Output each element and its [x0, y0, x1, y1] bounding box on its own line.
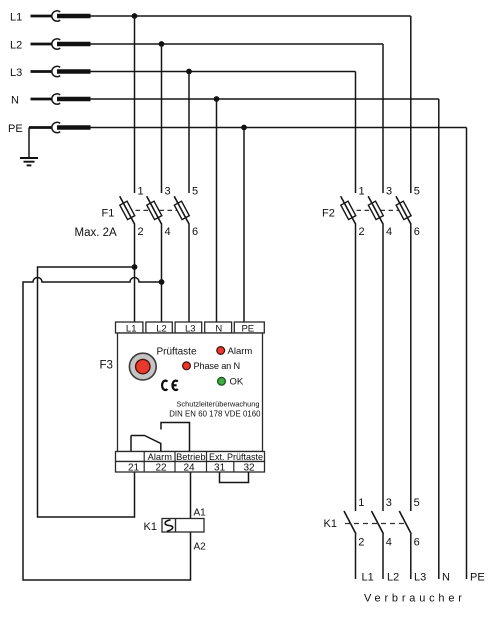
wire L1 to F1 pole 1	[134, 16, 136, 193]
svg-text:L2: L2	[387, 572, 399, 584]
svg-text:Alarm: Alarm	[228, 346, 253, 357]
svg-text:Ext. Prüftaste: Ext. Prüftaste	[209, 452, 263, 462]
fuse F2 pole 5-6	[396, 196, 411, 224]
junction N	[214, 96, 220, 102]
svg-text:F2: F2	[322, 208, 335, 220]
svg-text:2: 2	[359, 226, 365, 238]
svg-text:L1: L1	[362, 572, 374, 584]
wire N busbar	[91, 98, 439, 100]
fuse F1 pole 5-6	[174, 196, 189, 224]
ground	[20, 158, 38, 165]
svg-text:L1: L1	[10, 12, 22, 24]
svg-text:24: 24	[183, 463, 195, 474]
svg-text:4: 4	[386, 226, 392, 238]
junction L2	[159, 41, 165, 47]
svg-text:3: 3	[165, 186, 171, 198]
wire F2.2 down	[355, 225, 357, 512]
fuse F1 pole 3-4	[147, 196, 162, 224]
svg-text:F3: F3	[100, 360, 113, 372]
fuse F2 pole 1-2	[341, 196, 356, 224]
K1 contact pole 1-2	[344, 511, 356, 534]
wire L3 drop to F2	[355, 72, 357, 194]
supply connector L3	[31, 66, 91, 76]
wire L2 busbar	[91, 43, 384, 45]
fuse group F1 dashed link	[128, 209, 183, 211]
supply connector N	[31, 94, 91, 104]
wire F1.6 to F3 terminal L3	[188, 225, 190, 323]
wire PE drop right	[466, 128, 468, 580]
svg-text:22: 22	[155, 463, 167, 474]
junction L3	[186, 69, 192, 75]
wire terminal 24 to K1 A1	[190, 472, 192, 519]
svg-text:DIN EN 60 178 VDE 0160: DIN EN 60 178 VDE 0160	[169, 409, 261, 418]
contactor coil K1	[162, 519, 204, 533]
wire F2.4 down	[382, 225, 384, 512]
svg-text:L2: L2	[10, 40, 22, 52]
wire L3 busbar	[91, 71, 356, 73]
supply connector L1	[31, 11, 91, 21]
wire N to F3 terminal N	[216, 99, 218, 322]
svg-text:3: 3	[386, 497, 392, 509]
svg-text:4: 4	[386, 536, 392, 548]
test button Prüftaste	[129, 353, 156, 380]
supply connector PE	[29, 122, 91, 132]
svg-text:K1: K1	[324, 518, 337, 530]
svg-text:Verbraucher: Verbraucher	[364, 593, 466, 605]
svg-text:Phase an N: Phase an N	[194, 361, 241, 371]
internal contact NO leg to 24	[161, 423, 190, 452]
junction PE	[241, 125, 247, 131]
svg-text:OK: OK	[230, 377, 244, 388]
junction L1	[132, 13, 138, 19]
svg-text:4: 4	[165, 226, 171, 238]
wire K1.4 to load	[382, 534, 384, 579]
svg-text:21: 21	[128, 463, 140, 474]
svg-text:L3: L3	[414, 572, 426, 584]
wire F1.2 to F3 terminal L1	[134, 225, 136, 323]
wire PE to F3 terminal PE	[243, 128, 245, 323]
svg-text:2: 2	[358, 536, 364, 548]
svg-text:L3: L3	[10, 67, 22, 79]
F3 bottom label row	[116, 452, 265, 462]
fuse F2 pole 3-4	[368, 196, 383, 224]
LED Alarm	[217, 347, 225, 355]
svg-text:K1: K1	[144, 521, 157, 533]
svg-text:N: N	[442, 572, 450, 584]
junction F3 L2 feed	[159, 279, 165, 285]
svg-text:N: N	[11, 95, 19, 107]
wire K1.6 to load	[410, 534, 412, 579]
wire F2.6 down	[410, 225, 412, 512]
junction F3 L1 feed	[132, 264, 138, 270]
F3 bottom terminal row	[116, 462, 265, 473]
fuse F1 pole 1-2	[120, 196, 135, 224]
K1 contact pole 3-4	[372, 511, 384, 534]
wire L1 busbar	[91, 15, 411, 17]
svg-text:1: 1	[359, 186, 365, 198]
svg-text:6: 6	[414, 536, 420, 548]
svg-text:F1: F1	[102, 208, 115, 220]
wire N drop right	[438, 99, 440, 579]
svg-text:Schutzleiterüberwachung: Schutzleiterüberwachung	[177, 400, 260, 409]
svg-text:6: 6	[192, 226, 198, 238]
wire coil A2 loop with bridges	[23, 278, 191, 581]
svg-text:32: 32	[243, 463, 255, 474]
svg-text:1: 1	[138, 186, 144, 198]
svg-text:5: 5	[192, 186, 198, 198]
svg-text:Max. 2A: Max. 2A	[75, 227, 118, 239]
svg-text:A2: A2	[194, 542, 207, 553]
wire terminal 21 loop	[38, 267, 135, 517]
jumper wire 31-32	[220, 472, 249, 483]
wire PE to ground	[28, 128, 30, 158]
wire F1.4 to F3 terminal L2	[161, 225, 163, 323]
svg-text:Prüftaste: Prüftaste	[157, 347, 197, 358]
svg-text:Alarm: Alarm	[148, 452, 173, 462]
fuse group F2 dashed link	[349, 209, 405, 211]
internal changeover contact common leg	[130, 436, 132, 452]
relay F3 body	[118, 333, 263, 452]
svg-text:PE: PE	[8, 123, 23, 135]
wire K1.2 to load	[355, 534, 357, 579]
K1 contact pole 5-6	[399, 511, 411, 534]
wire PE busbar	[91, 127, 467, 129]
wire L3 to F1 pole 3	[188, 72, 190, 194]
svg-text:A1: A1	[194, 508, 207, 519]
internal contact blade	[131, 436, 161, 452]
LED Phase an N	[183, 362, 191, 370]
svg-text:2: 2	[138, 226, 144, 238]
svg-text:31: 31	[214, 463, 226, 474]
wire L2 to F1 pole 2	[161, 44, 163, 193]
wire L2 drop to F2	[382, 44, 384, 193]
LED OK	[218, 377, 226, 385]
svg-text:5: 5	[414, 186, 420, 198]
CE mark	[162, 381, 178, 390]
wire L1 drop to F2	[410, 16, 412, 193]
svg-text:1: 1	[358, 497, 364, 509]
svg-text:5: 5	[414, 497, 420, 509]
svg-text:6: 6	[414, 226, 420, 238]
svg-text:3: 3	[386, 186, 392, 198]
contactor K1 contacts dashed link	[345, 523, 408, 525]
svg-text:Betrieb: Betrieb	[176, 452, 205, 462]
supply connector L2	[31, 39, 91, 49]
relay F3 terminal strip	[116, 322, 265, 333]
svg-text:PE: PE	[470, 572, 485, 584]
